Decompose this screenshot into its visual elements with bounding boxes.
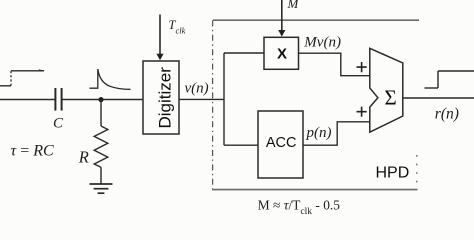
wire input to capacitor bbox=[0, 99, 55, 101]
svg-text:R: R bbox=[78, 148, 89, 167]
M input arrow bbox=[278, 0, 285, 37]
svg-text:C: C bbox=[53, 116, 64, 132]
plus sign top input bbox=[357, 62, 367, 72]
summer sigma polygon bbox=[370, 48, 403, 132]
ground bbox=[90, 184, 113, 193]
wire multiplier to summer bbox=[299, 53, 370, 75]
wire ACC to summer bbox=[303, 122, 370, 145]
wire summer output r(n) bbox=[403, 97, 474, 99]
svg-text:M: M bbox=[287, 0, 300, 11]
capacitor C bbox=[55, 88, 61, 111]
accumulator ACC box bbox=[258, 111, 303, 178]
wire digitizer output v(n) bbox=[179, 98, 224, 100]
svg-text:X: X bbox=[277, 45, 287, 62]
svg-text:ACC: ACC bbox=[266, 135, 297, 151]
wire bus vertical bbox=[223, 53, 225, 145]
multiplier X box bbox=[264, 37, 299, 69]
digitizer U1 bbox=[143, 61, 179, 134]
wire capacitor to digitizer bbox=[62, 99, 143, 101]
svg-text:Σ: Σ bbox=[384, 86, 396, 110]
svg-text:p(n): p(n) bbox=[306, 125, 332, 141]
wire resistor to ground bbox=[100, 167, 102, 184]
exponential decay waveform bbox=[90, 69, 131, 89]
clock input Tclk arrow bbox=[156, 15, 163, 61]
svg-text:HPD: HPD bbox=[376, 164, 410, 181]
plus sign bottom input bbox=[357, 107, 367, 117]
HPD boundary right dash-dot line bbox=[416, 155, 418, 186]
wire bus to multiplier bbox=[224, 52, 264, 54]
HPD boundary top line bbox=[213, 19, 419, 21]
HPD boundary left dash-dot line bbox=[212, 20, 214, 189]
svg-text:τ = RC: τ = RC bbox=[11, 143, 55, 160]
wire bus to ACC bbox=[224, 144, 258, 146]
svg-text:r(n): r(n) bbox=[435, 106, 459, 123]
svg-text:Digitizer: Digitizer bbox=[156, 67, 175, 129]
node junction dot bbox=[98, 97, 103, 102]
input step waveform bbox=[0, 69, 46, 86]
wire node to resistor bbox=[100, 100, 102, 126]
svg-text:v(n): v(n) bbox=[185, 81, 209, 97]
svg-text:Mv(n): Mv(n) bbox=[303, 34, 341, 50]
output step waveform bbox=[425, 71, 474, 88]
HPD boundary bottom line bbox=[212, 189, 418, 191]
resistor R bbox=[94, 126, 108, 167]
